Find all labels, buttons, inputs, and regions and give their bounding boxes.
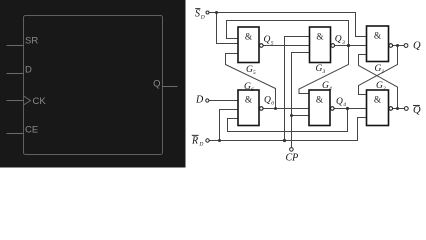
svg-text:&: & <box>316 96 324 106</box>
svg-text:3: 3 <box>341 40 345 46</box>
svg-text:SR: SR <box>25 36 38 47</box>
svg-text:4: 4 <box>343 101 346 108</box>
svg-text:&: & <box>245 33 253 43</box>
svg-text:G: G <box>316 64 323 74</box>
svg-text:6: 6 <box>271 101 274 107</box>
svg-text:Q: Q <box>335 35 342 45</box>
svg-text:G: G <box>376 81 383 91</box>
svg-text:&: & <box>316 33 324 43</box>
svg-text:D: D <box>198 142 203 148</box>
svg-text:5: 5 <box>253 70 256 76</box>
svg-text:&: & <box>374 32 382 42</box>
svg-text:R: R <box>191 136 198 147</box>
svg-text:3: 3 <box>322 69 326 75</box>
svg-text:G: G <box>322 81 329 91</box>
svg-text:D: D <box>200 15 205 21</box>
svg-text:Q: Q <box>264 95 271 105</box>
svg-text:G: G <box>246 65 253 75</box>
svg-text:Q: Q <box>264 35 271 45</box>
svg-text:D: D <box>195 95 204 106</box>
svg-text:Q: Q <box>336 97 343 107</box>
svg-text:&: & <box>245 96 253 106</box>
svg-text:D: D <box>25 64 32 75</box>
svg-text:G: G <box>375 64 382 74</box>
svg-text:Q: Q <box>153 78 160 89</box>
svg-text:CP: CP <box>286 152 299 163</box>
svg-text:CK: CK <box>33 96 47 107</box>
svg-text:2: 2 <box>383 86 386 92</box>
svg-text:CE: CE <box>25 124 38 135</box>
svg-text:S: S <box>195 9 200 20</box>
svg-text:6: 6 <box>251 87 254 93</box>
svg-text:Q: Q <box>413 41 421 52</box>
svg-text:5: 5 <box>271 40 274 46</box>
svg-text:Q: Q <box>413 105 421 116</box>
svg-text:G: G <box>244 82 251 92</box>
svg-text:4: 4 <box>329 85 332 92</box>
svg-text:1: 1 <box>382 69 385 75</box>
svg-text:&: & <box>374 96 382 106</box>
